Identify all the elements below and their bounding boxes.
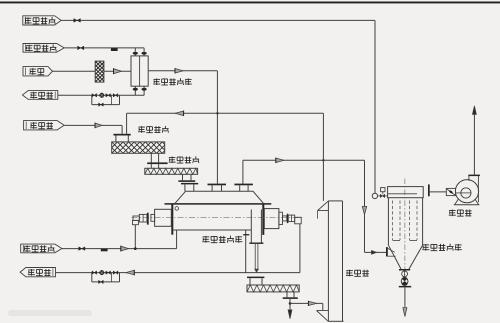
faint scan smudge [8,310,92,316]
pulse control box [381,188,385,192]
wire: riser from hot air header down to elevator top [322,113,324,201]
junction dot steam split [134,247,137,250]
label: paddle dryer (jiang ye gan zao ji) [202,236,209,243]
wire: filter to fan [430,191,447,193]
filter bags dashed [392,201,394,241]
chute drop duct [254,244,256,270]
valve V2 on steam line [78,46,81,50]
small valve between pulse circle and filter [380,194,382,197]
wire: dryer exhaust duct [243,159,365,161]
wire: stack exhaust up [473,114,475,175]
wire: product branch to bucket elevator [290,302,323,304]
top border line [0,2,500,4]
wire: exhaust drop to bag filter [364,160,366,252]
flow arrow hot air right [175,69,183,74]
valve V3 dark globe valve on steam line [111,48,118,51]
bag filter body [387,198,389,246]
label: bucket elevator (dou ti ji) [346,270,353,277]
induced draft fan FAN1 volute [455,180,478,203]
wire: condensate drop from right rotary joint [299,224,301,273]
flag: condensate bottom (leng ning shui) pointing left [20,268,55,277]
discharge conveyor outlet flange bar [283,297,298,299]
heat exchanger top flanges [133,52,138,55]
dryer right rotary joint box [295,217,302,224]
conveying screw M2 body (shu song jiao long) [145,168,198,174]
flag: saturated steam bottom (bao he zheng qi) [21,244,62,253]
flag: wet material (shi wu liao) [24,121,65,130]
dryer jacket drain stub [245,230,247,273]
wire: hot air from heat exchanger [148,70,217,72]
bag filter center dash-dot line [404,179,406,289]
wire: steam riser to dryer jacket [176,230,178,249]
flow arrow on air wire [114,69,122,74]
paddle dryer D1 top trapezoid [175,191,264,203]
dryer center line dash-dot [132,217,303,219]
dryer left end plate [171,204,173,235]
wire: compressed air drop to pulse valve [374,20,376,193]
label: mixing screw (hun liao jiao long) [138,126,145,133]
dryer right shaft [283,216,287,221]
valve V4 on bottom steam line [79,247,82,251]
filter inlet flange [386,247,388,256]
junction dot exhaust/elevator riser [322,159,324,161]
dryer nozzle N3 exhaust outlet [234,184,253,186]
small wedge at duct bottom [255,269,259,272]
fan support legs [455,199,459,204]
bag filter cone [388,245,401,269]
dryer right flange disc [287,214,289,223]
junction hot air cross [216,112,218,114]
label: conveying screw (shu song jiao long) [169,157,176,164]
wire: steam branch drops into heat exchanger columns [134,48,136,52]
mixer screw body (hun liao jiao long) [112,142,165,153]
wire: air to filter [53,70,96,72]
filter discharge bottom flange [399,286,411,288]
dryer left rotary joint cap [133,220,139,224]
discharge conveyor outlet neck [286,292,288,297]
flag: saturated steam top (bao he zheng qi) [23,44,64,53]
dryer left shaft [133,216,139,220]
discharge conveyor M3 inlet flange bar [247,277,264,279]
label: steam heat exchanger (zheng qi huan re qi) [153,78,160,85]
fan inner eye [461,188,471,198]
wire: compressed air main [61,19,375,21]
wire: product down with arrow [289,299,291,310]
label: induced draft fan (yin feng ji) [449,209,456,216]
dryer left shaft step [151,214,155,221]
wire: steam drop to left rotary joint [134,225,136,249]
wire: condensate main top [58,94,144,96]
filter outlet flange [428,184,430,196]
bucket elevator top-left diagonal [318,201,329,211]
mixer screw M1 inlet flange bar [113,134,130,136]
wire: steam to dryer [62,248,177,250]
heat exchanger bottom flanges [133,88,138,91]
flag: condensate top (leng ning shui) pointing left [22,91,57,100]
small vent circle on dryer [175,207,179,211]
wire: filter dust out with hollow down arrow [404,287,406,307]
dryer nozzle N1 flange bar [181,183,198,185]
flow arrow on bottom steam line [121,246,129,251]
heat exchanger U1 (steam heater) columns [131,56,148,86]
conveyor outlet flange bar [178,180,195,182]
fan outlet flange bar [468,175,480,177]
valve V1 on compressed air line [74,19,77,23]
mixer outlet neck [150,153,152,162]
dryer right stuffing box [264,209,279,229]
wire: condensate return main [56,272,300,274]
air filter F1 crosshatched [95,61,104,82]
wire: pulse to filter cap [378,195,388,197]
dryer left stuffing box [155,209,172,226]
wire: wet material feed to mixer [64,124,122,126]
rotary valve circle [402,271,408,277]
valve V5 dark globe on bottom steam line [101,249,108,252]
dryer left flange disc [147,213,149,225]
fan outlet duct [477,176,479,203]
dryer right coupling [288,215,294,222]
wire: heat exchanger condensate drops [134,90,136,95]
conveyor inlet flange bar [147,162,167,164]
dryer shoulder flange bar [165,203,272,205]
wire: exhaust into filter cone inlet [365,251,387,253]
flow arrow on wet material wire [95,123,102,128]
discharge conveyor body [247,285,299,292]
bucket elevator bottom-left diagonal [317,310,329,312]
filter discharge flange [399,269,410,271]
flow arrow exhaust down [362,207,366,215]
mixer inlet neck [115,136,117,142]
chute bottom flange bar [249,243,263,244]
wire: air filter to heat exchanger [104,70,131,72]
bag filter cap [388,187,424,198]
wire: steam to heat exchanger [64,47,144,49]
dryer discharge chute [250,209,252,242]
dryer body bottom edge [173,229,251,231]
label: bag dust collector (bu dai chu chen qi) [422,244,429,251]
steam trap assembly top with bypass [91,95,93,104]
dryer nozzle N2 hot air inlet [208,184,227,186]
bucket elevator body (dou ti ji) [342,201,344,321]
wire: hot air header to mixer [127,112,324,114]
dryer right end plate [262,204,264,235]
rotary valve dark rotor [401,278,408,285]
flow arrow to mixer pointing left [175,111,183,116]
fan inlet damper box [446,188,455,195]
dryer right shaft step [279,212,283,224]
dryer left coupling [139,214,147,222]
flag: air (kong qi) [23,67,53,76]
flow arrow condensate pointing left [126,270,134,275]
wire: hot air down pipe to dryer nozzle 2 [216,71,218,184]
pulse valve circle on filter [372,193,377,198]
flow arrow exhaust right [276,158,284,163]
flag: compressed air (ya suo kong qi) [23,16,61,25]
steam trap assembly bottom with bypass [91,273,93,282]
conveyor outlet neck to dryer [182,174,184,180]
